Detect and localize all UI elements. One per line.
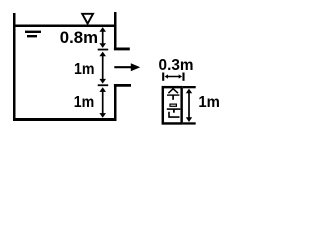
tank left wall: [13, 13, 16, 121]
dimension 0.8m arrow shaft: [102, 30, 104, 46]
tank upper lip: [114, 48, 130, 51]
dimension 0.3m arrow shaft: [166, 76, 181, 78]
flow arrowhead: [131, 63, 140, 71]
sluice gate box: [163, 87, 182, 123]
dimension 1m bottom bottom arrowhead: [99, 113, 106, 118]
dimension 1m middle arrow shaft: [102, 54, 104, 82]
tank bottom: [13, 118, 117, 121]
tank right wall lower segment: [114, 84, 117, 121]
dimension 0.3m left arrowhead: [165, 74, 168, 78]
tank right wall upper segment: [114, 12, 117, 50]
dimension 1m gate top arrowhead: [186, 89, 192, 94]
tick between 0.8m and 1m dimensions: [98, 49, 109, 51]
dimension 1m gate arrow shaft: [188, 92, 190, 120]
Korean label su (수) - u vertical stem: [172, 95, 174, 100]
dimension 1m bottom arrow shaft: [102, 90, 104, 116]
dimension 0.3m right tick: [182, 73, 184, 81]
Korean label su (수) - s roof stroke: [168, 89, 178, 94]
tank lower lip: [114, 84, 131, 87]
Korean label mun (문) - m box: [170, 104, 176, 106]
tick between middle and bottom 1m dimensions: [98, 84, 109, 86]
Korean label mun (문) - u horizontal bar: [167, 108, 181, 110]
dimension 0.3m left tick: [162, 73, 164, 81]
dimension 0.8m top arrowhead: [99, 27, 106, 32]
water surface line: [13, 24, 117, 27]
svg-text:0.8m: 0.8m: [60, 29, 98, 47]
dimension 1m middle top arrowhead: [99, 52, 106, 57]
dimension 1m gate bottom tick: [183, 122, 196, 124]
svg-text:1m: 1m: [74, 94, 95, 111]
dimension 0.8m bottom arrowhead: [99, 43, 106, 48]
Korean label mun (문) - u vertical stem: [173, 109, 175, 113]
Korean label mun (문) - n stroke: [169, 112, 180, 117]
svg-text:1m: 1m: [74, 61, 95, 78]
svg-text:0.3m: 0.3m: [159, 57, 194, 74]
dimension 0.3m right arrowhead: [179, 74, 182, 78]
dimension 1m bottom top arrowhead: [99, 87, 106, 92]
water surface equals mark lower bar: [27, 35, 37, 37]
water surface equals mark upper bar: [25, 31, 41, 33]
water level triangle symbol: [82, 14, 93, 24]
Korean label su (수) - u horizontal bar: [167, 94, 179, 96]
svg-text:1m: 1m: [198, 94, 220, 111]
dimension 1m middle bottom arrowhead: [99, 79, 106, 84]
dimension 1m gate bottom arrowhead: [186, 117, 192, 122]
dimension 1m gate top tick: [183, 86, 196, 88]
flow arrow shaft: [114, 66, 132, 68]
